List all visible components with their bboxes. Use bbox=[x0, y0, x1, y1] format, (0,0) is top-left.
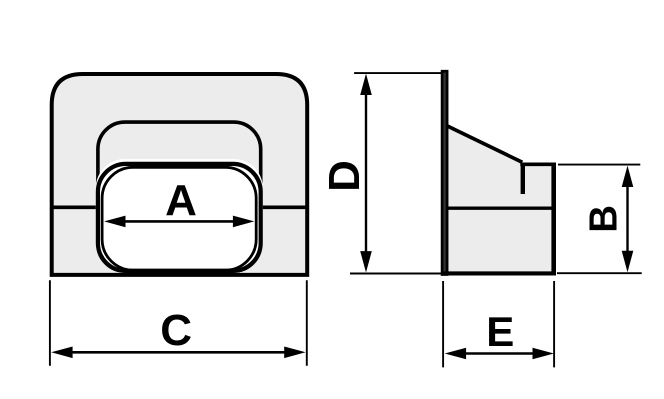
dimension C line bbox=[68, 351, 288, 354]
svg-text:E: E bbox=[486, 308, 514, 355]
front view: horizontal divider line bbox=[52, 206, 308, 210]
dimension D bottom arrowhead bbox=[360, 251, 372, 272]
front view: middle rounded slot bbox=[98, 122, 261, 271]
dimension A right arrowhead bbox=[233, 216, 254, 228]
dimension B top arrowhead bbox=[622, 166, 634, 187]
side view: bottom edge bbox=[441, 271, 556, 275]
dimension B bottom arrowhead bbox=[622, 251, 634, 272]
dimension C right extension line bbox=[306, 280, 308, 365]
front view: inner opening outer stroke bbox=[98, 164, 261, 271]
front view: inner opening inner stroke bbox=[102, 167, 256, 270]
side view: gray body fill bbox=[448, 127, 554, 273]
svg-text:D: D bbox=[320, 160, 369, 192]
dimension C right arrowhead bbox=[284, 347, 305, 359]
dimension E left arrowhead bbox=[445, 348, 466, 360]
side view: back wall bar bbox=[442, 71, 447, 274]
dimension A line bbox=[122, 220, 236, 223]
front view: clamp body outline bbox=[52, 74, 308, 275]
dimension D bottom extension line bbox=[350, 273, 441, 275]
side view: step top edge bbox=[520, 163, 556, 167]
dimension D top extension line bbox=[354, 72, 441, 74]
dimension E right arrowhead bbox=[533, 348, 554, 360]
svg-text:B: B bbox=[582, 205, 625, 233]
dimension B top extension line bbox=[558, 164, 640, 166]
svg-text:C: C bbox=[160, 306, 192, 355]
dimension E line bbox=[460, 352, 538, 355]
dimension C left arrowhead bbox=[51, 347, 72, 359]
dimension D line bbox=[365, 90, 367, 256]
dimension E left extension line bbox=[442, 281, 444, 367]
dimension A left arrowhead bbox=[104, 216, 125, 228]
dimension B line bbox=[626, 180, 628, 258]
side view: divider line bbox=[448, 207, 556, 210]
front view: inner opening white fill bbox=[96, 159, 263, 272]
side view: notch line bbox=[521, 163, 525, 194]
dimension D top arrowhead bbox=[360, 74, 372, 95]
dimension C left extension line bbox=[49, 280, 51, 365]
side view: sloped top edge bbox=[447, 126, 523, 163]
dimension B bottom extension line bbox=[557, 272, 642, 274]
side view: right edge bbox=[551, 163, 556, 276]
dimension E right extension line bbox=[553, 281, 555, 367]
svg-text:A: A bbox=[165, 176, 197, 225]
